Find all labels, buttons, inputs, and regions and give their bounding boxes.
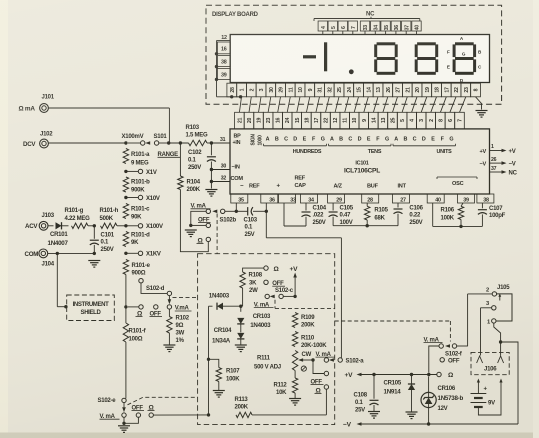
pin 1 +V xyxy=(490,144,516,155)
svg-text:26: 26 xyxy=(491,157,497,163)
S102-f common wire xyxy=(429,346,439,373)
wire J101 to node xyxy=(49,108,170,143)
svg-text:Ω mA: Ω mA xyxy=(19,106,36,113)
svg-text:1000: 1000 xyxy=(258,135,264,146)
svg-text:12: 12 xyxy=(333,118,339,124)
svg-text:SIGN: SIGN xyxy=(251,134,257,146)
svg-text:34: 34 xyxy=(308,198,314,204)
switch S102-f xyxy=(424,337,468,357)
svg-text:4: 4 xyxy=(410,119,416,122)
svg-text:2W: 2W xyxy=(249,288,258,294)
pin 30 wire xyxy=(211,164,230,170)
svg-text:1N914: 1N914 xyxy=(384,388,402,395)
svg-text:17: 17 xyxy=(314,118,320,124)
capacitor C108 xyxy=(354,375,379,414)
op-chip IC101 outline xyxy=(230,129,490,194)
svg-text:R101-f: R101-f xyxy=(129,329,147,335)
instrument shield box xyxy=(67,295,115,321)
display bottom pin boxes xyxy=(227,83,481,97)
svg-text:R101-g: R101-g xyxy=(65,208,84,214)
svg-text:27: 27 xyxy=(396,87,402,93)
svg-text:100K: 100K xyxy=(226,376,240,382)
svg-text:8: 8 xyxy=(474,88,480,91)
svg-text:X1V: X1V xyxy=(146,170,157,176)
ground CR104 xyxy=(235,345,247,352)
svg-text:8: 8 xyxy=(438,119,444,122)
svg-text:DCV: DCV xyxy=(23,141,36,148)
display board dashed outline xyxy=(206,5,502,104)
potentiometer R111 xyxy=(254,351,315,372)
svg-text:A/Z: A/Z xyxy=(334,183,343,189)
svg-text:C: C xyxy=(348,136,352,142)
svg-text:250V: 250V xyxy=(409,220,422,226)
svg-text:C107: C107 xyxy=(489,206,503,212)
svg-text:C102: C102 xyxy=(188,150,202,156)
svg-text:1.5 MEG: 1.5 MEG xyxy=(186,132,209,138)
wiper to OFF omega xyxy=(313,360,324,374)
wire pin40 xyxy=(432,203,434,226)
svg-text:37: 37 xyxy=(491,166,497,172)
wire J102 to S101 xyxy=(49,141,128,144)
svg-text:9K: 9K xyxy=(131,240,139,246)
svg-text:R101-d: R101-d xyxy=(131,232,150,238)
svg-text:40: 40 xyxy=(415,25,421,31)
svg-text:J105: J105 xyxy=(497,285,510,291)
svg-text:38: 38 xyxy=(221,60,227,66)
S102-b VmA to gnd wire xyxy=(189,211,206,227)
capacitor C107 xyxy=(478,203,506,226)
digit minus sign xyxy=(303,55,316,58)
display pin 12 xyxy=(217,35,231,41)
svg-text:R107: R107 xyxy=(226,369,240,375)
resistor R101-h xyxy=(100,208,126,229)
svg-text:24: 24 xyxy=(347,87,353,93)
contact omega S102-f rail xyxy=(437,372,454,379)
svg-text:12V: 12V xyxy=(438,406,448,412)
svg-text:R108: R108 xyxy=(249,272,263,278)
switch S101 xyxy=(122,134,171,145)
svg-text:200K: 200K xyxy=(187,187,201,193)
svg-text:9V: 9V xyxy=(488,401,495,407)
digit 8 (units) xyxy=(453,42,477,75)
svg-text:D: D xyxy=(293,136,297,142)
IC101 bottom pin boxes xyxy=(231,194,494,204)
svg-text:F: F xyxy=(447,49,450,54)
svg-text:900Ω: 900Ω xyxy=(132,270,146,276)
svg-text:9Ω: 9Ω xyxy=(176,323,184,329)
tap X100V xyxy=(124,224,163,231)
wire pin36 to S102-a xyxy=(265,203,342,358)
segment labels A-G xyxy=(447,36,482,83)
svg-text:250V: 250V xyxy=(101,247,114,253)
wires display to IC101 xyxy=(239,97,465,113)
diode CR101 xyxy=(48,222,69,247)
svg-text:C103: C103 xyxy=(244,217,258,223)
svg-text:REF: REF xyxy=(249,183,260,189)
svg-text:−V: −V xyxy=(343,422,352,429)
svg-text:B: B xyxy=(275,136,279,142)
pin 26 -V xyxy=(490,157,516,168)
svg-text:7: 7 xyxy=(351,26,357,29)
resistor R101-g xyxy=(65,208,97,229)
resistor R104 xyxy=(178,141,201,193)
label BUF xyxy=(367,183,379,189)
svg-text:R105: R105 xyxy=(374,207,388,213)
pin 37 NC xyxy=(490,166,518,177)
diode CR105 xyxy=(384,375,416,412)
svg-text:D: D xyxy=(422,136,426,142)
svg-text:9: 9 xyxy=(308,88,314,91)
svg-text:25: 25 xyxy=(391,118,397,124)
svg-text:9: 9 xyxy=(362,119,368,122)
svg-text:R106: R106 xyxy=(441,207,455,213)
contact omega S102-c xyxy=(264,266,280,273)
svg-text:1N4003: 1N4003 xyxy=(250,322,271,329)
svg-text:S101: S101 xyxy=(154,134,168,140)
svg-text:0.22: 0.22 xyxy=(409,213,421,219)
svg-text:1N4007: 1N4007 xyxy=(48,240,69,247)
svg-text:S102-f: S102-f xyxy=(445,351,463,357)
svg-text:C: C xyxy=(284,136,288,142)
svg-text:R101-c: R101-c xyxy=(131,206,150,212)
bracket tens xyxy=(329,144,392,146)
+V arrow at R109 xyxy=(290,266,299,296)
svg-text:24: 24 xyxy=(285,118,291,124)
svg-text:30: 30 xyxy=(221,164,227,170)
svg-text:A: A xyxy=(394,136,398,142)
svg-text:1: 1 xyxy=(240,88,246,91)
switch S102-d xyxy=(139,279,172,305)
resistor R103 xyxy=(169,125,213,146)
resistor R109 xyxy=(292,296,315,328)
svg-text:0.1: 0.1 xyxy=(188,157,197,163)
IC101 top pin boxes xyxy=(235,112,465,129)
svg-text:J106: J106 xyxy=(484,366,497,372)
wire J105-3 to battery+ xyxy=(481,308,492,356)
label S102-c xyxy=(275,288,294,294)
svg-text:CR104: CR104 xyxy=(214,328,232,334)
capacitor C104 xyxy=(284,203,327,226)
wire COM xyxy=(48,252,96,255)
svg-text:HUNDREDS: HUNDREDS xyxy=(293,149,322,155)
switch S102-e xyxy=(98,342,127,412)
svg-text:5: 5 xyxy=(331,26,337,29)
ground C108 xyxy=(368,412,380,419)
svg-text:100pF: 100pF xyxy=(489,213,506,219)
svg-text:14: 14 xyxy=(366,87,372,93)
wire to instrument shield xyxy=(57,253,67,308)
svg-text:B: B xyxy=(339,136,343,142)
svg-text:5: 5 xyxy=(400,119,406,122)
svg-text:100Ω: 100Ω xyxy=(129,337,143,343)
+V rail xyxy=(345,372,438,379)
ground below C102 xyxy=(205,190,217,197)
svg-text:CR105: CR105 xyxy=(384,380,402,386)
label COM xyxy=(231,176,244,182)
svg-text:3K: 3K xyxy=(249,280,257,286)
digit 8 (tens) xyxy=(415,42,439,75)
resistor R101-c xyxy=(123,204,150,221)
svg-text:0.1: 0.1 xyxy=(245,225,254,231)
svg-text:25: 25 xyxy=(337,87,343,93)
S102-e ground wires xyxy=(122,417,138,425)
svg-text:68K: 68K xyxy=(374,215,385,221)
digit 8 (hundreds) xyxy=(374,42,398,75)
resistor R113 xyxy=(235,389,327,418)
svg-text:ACV: ACV xyxy=(25,223,38,230)
svg-text:2: 2 xyxy=(249,88,255,91)
svg-text:4: 4 xyxy=(321,26,327,29)
svg-text:SHIELD: SHIELD xyxy=(81,310,102,316)
tap X10V xyxy=(124,195,160,202)
svg-text:R101-e: R101-e xyxy=(132,263,151,269)
ground below R102 xyxy=(163,345,175,352)
svg-text:+V: +V xyxy=(509,149,516,155)
resistor R107 xyxy=(209,359,241,390)
svg-text:15: 15 xyxy=(295,118,301,124)
svg-text:C104: C104 xyxy=(313,205,327,211)
svg-text:36: 36 xyxy=(269,198,275,204)
svg-text:13: 13 xyxy=(381,118,387,124)
svg-text:1N4003: 1N4003 xyxy=(209,293,230,300)
display pin 38 box xyxy=(217,56,230,67)
segment drive letters A-G x3 xyxy=(266,136,454,142)
svg-text:900K: 900K xyxy=(131,187,145,193)
svg-text:7: 7 xyxy=(458,119,464,122)
ground R107 xyxy=(213,391,225,398)
svg-text:1N5738-b: 1N5738-b xyxy=(438,395,464,402)
capacitor C106 xyxy=(394,203,424,226)
svg-text:6: 6 xyxy=(341,26,347,29)
label UNITS xyxy=(437,149,453,155)
svg-text:10K: 10K xyxy=(276,390,287,396)
svg-text:R104: R104 xyxy=(187,179,201,185)
display pin 16 box xyxy=(217,42,230,54)
contact OFF S102-d xyxy=(150,305,163,318)
label NC xyxy=(366,12,375,18)
contact omega S102-b xyxy=(197,237,211,244)
label 1000 xyxy=(258,135,264,146)
svg-text:C101: C101 xyxy=(101,232,115,238)
svg-text:J101: J101 xyxy=(42,95,55,101)
switch S102-a xyxy=(316,352,365,365)
svg-text:13: 13 xyxy=(376,87,382,93)
svg-text:BUF: BUF xyxy=(367,183,379,189)
resistor R108 xyxy=(240,268,264,306)
svg-text:200K: 200K xyxy=(235,405,249,411)
label A/Z xyxy=(334,183,343,189)
svg-text:28: 28 xyxy=(367,198,373,204)
linkage dash S102-d xyxy=(173,296,198,298)
svg-text:G: G xyxy=(321,136,325,142)
bracket units xyxy=(393,144,456,146)
contact omega S102-a xyxy=(315,385,329,395)
svg-text:33: 33 xyxy=(290,198,296,204)
svg-text:36: 36 xyxy=(394,25,400,31)
linkage dash S102b xyxy=(216,214,218,254)
contact OFF S102-a xyxy=(311,371,329,385)
label REF - + xyxy=(240,183,281,189)
svg-text:0.1: 0.1 xyxy=(101,240,110,246)
display NC pin boxes 4 5 6 7 33 34 35 36 37 40 xyxy=(318,21,421,35)
svg-text:37: 37 xyxy=(404,25,410,31)
contact OFF S102-c xyxy=(264,280,285,287)
svg-text:4.22 MEG: 4.22 MEG xyxy=(65,216,91,222)
svg-text:C108: C108 xyxy=(354,392,368,398)
battery B1 9V xyxy=(471,387,502,415)
svg-text:.022: .022 xyxy=(313,213,325,219)
svg-text:20: 20 xyxy=(415,87,421,93)
wire left branch xyxy=(207,306,210,415)
svg-text:C: C xyxy=(413,136,417,142)
svg-text:28: 28 xyxy=(230,87,236,93)
osc node wire xyxy=(433,225,483,228)
svg-text:22: 22 xyxy=(454,87,460,93)
resistor R101-a xyxy=(123,149,180,167)
svg-text:17: 17 xyxy=(444,87,450,93)
contact OFF S102-e xyxy=(132,405,145,417)
wire J105-1 xyxy=(494,323,501,356)
svg-text:A: A xyxy=(330,136,334,142)
svg-text:14: 14 xyxy=(371,118,377,124)
svg-text:+V: +V xyxy=(290,266,299,273)
svg-text:S102-e: S102-e xyxy=(98,398,117,404)
svg-text:100K: 100K xyxy=(441,215,455,221)
svg-text:−V: −V xyxy=(509,162,516,168)
svg-text:40: 40 xyxy=(435,198,441,204)
svg-text:E: E xyxy=(447,64,450,69)
svg-text:COM: COM xyxy=(25,251,39,258)
svg-text:S102b: S102b xyxy=(220,217,237,223)
contact omega S102-d xyxy=(128,305,143,318)
svg-text:S102-a: S102-a xyxy=(346,359,365,365)
svg-text:35: 35 xyxy=(384,25,390,31)
svg-text:R103: R103 xyxy=(186,125,200,131)
svg-text:15: 15 xyxy=(357,87,363,93)
capacitor C105 xyxy=(329,203,354,226)
dashed enclosure ohms section xyxy=(198,254,335,425)
svg-text:BP: BP xyxy=(234,133,242,139)
resistor R105 xyxy=(365,203,389,226)
svg-text:27: 27 xyxy=(400,198,406,204)
svg-text:500K: 500K xyxy=(100,216,114,222)
resistor R110 xyxy=(292,332,327,350)
svg-text:J103: J103 xyxy=(42,213,55,219)
svg-text:1N34A: 1N34A xyxy=(212,338,231,345)
svg-text:35: 35 xyxy=(238,198,244,204)
wire omega to CR106 node xyxy=(429,374,437,376)
connector J105 xyxy=(486,285,510,325)
svg-text:−V: −V xyxy=(480,161,487,167)
contact OFF S102-f xyxy=(440,358,460,365)
label BP +IN xyxy=(233,133,242,146)
svg-text:3W: 3W xyxy=(176,330,185,336)
wire chain to S102-e xyxy=(125,342,127,398)
svg-text:19: 19 xyxy=(425,87,431,93)
contact omega S102-e xyxy=(148,404,155,417)
svg-text:R110: R110 xyxy=(301,335,315,341)
svg-text:DISPLAY BOARD: DISPLAY BOARD xyxy=(212,12,259,18)
svg-text:J104: J104 xyxy=(42,262,55,268)
svg-text:18: 18 xyxy=(304,118,310,124)
svg-text:0.1: 0.1 xyxy=(355,400,364,406)
svg-text:0.47: 0.47 xyxy=(340,213,352,219)
capacitor C103 xyxy=(236,207,266,238)
tap X1V xyxy=(124,169,157,176)
contact OFF S102-b xyxy=(191,217,211,227)
wire pin35 xyxy=(235,203,238,213)
tap X1KV xyxy=(124,251,161,258)
svg-text:NC: NC xyxy=(366,12,375,18)
zener CR106 xyxy=(421,375,463,425)
svg-text:D: D xyxy=(358,136,362,142)
backplane wire left xyxy=(215,41,243,99)
svg-text:NC: NC xyxy=(509,171,518,177)
svg-text:R111: R111 xyxy=(257,355,271,361)
integrator node wire xyxy=(333,224,398,227)
capacitor C102 xyxy=(188,143,216,189)
resistor R112 xyxy=(274,371,298,399)
svg-text:38: 38 xyxy=(483,198,489,204)
svg-text:29: 29 xyxy=(336,198,342,204)
label ICL7106CPL xyxy=(344,167,380,174)
svg-text:R112: R112 xyxy=(274,383,288,389)
svg-text:INSTRUMENT: INSTRUMENT xyxy=(73,302,110,308)
svg-text:100V: 100V xyxy=(340,220,353,226)
svg-text:11: 11 xyxy=(288,87,294,92)
LCD display body xyxy=(230,35,489,83)
svg-text:29: 29 xyxy=(279,87,285,93)
ground S102-e xyxy=(118,426,130,433)
svg-text:2: 2 xyxy=(486,287,489,293)
svg-text:6: 6 xyxy=(448,119,454,122)
svg-text:OSC: OSC xyxy=(452,181,464,187)
svg-text:3: 3 xyxy=(419,119,425,122)
diode CR102 1N4003 xyxy=(209,293,243,310)
chain wire to S102d row xyxy=(124,275,127,309)
label -IN xyxy=(232,164,240,170)
pin 31 wire xyxy=(211,137,230,143)
svg-text:22: 22 xyxy=(324,118,330,124)
jack J101 xyxy=(19,95,55,113)
svg-text:20K-100K: 20K-100K xyxy=(301,343,327,349)
svg-text:10: 10 xyxy=(352,118,358,124)
svg-text:39: 39 xyxy=(221,72,227,78)
svg-text:X1KV: X1KV xyxy=(146,252,161,258)
label REF CAP xyxy=(295,176,307,189)
svg-text:CW: CW xyxy=(302,352,312,358)
svg-text:S102-c: S102-c xyxy=(275,288,294,294)
jack frame J105 xyxy=(496,293,512,321)
svg-text:CAP: CAP xyxy=(295,183,307,189)
linkage dash S102-c xyxy=(275,300,335,309)
switch S102-b xyxy=(191,204,237,224)
resistor R101-d xyxy=(123,232,150,247)
svg-text:+V: +V xyxy=(480,149,487,155)
plug pins to battery xyxy=(477,379,503,390)
svg-text:2: 2 xyxy=(429,119,435,122)
display pin 39 box xyxy=(217,68,230,79)
linkage dash S102-e xyxy=(128,397,198,405)
jack J103 xyxy=(25,213,55,230)
svg-text:X100mV: X100mV xyxy=(122,134,144,140)
ground S102-b xyxy=(185,230,197,237)
svg-text:G: G xyxy=(385,136,389,142)
pin 32 wire xyxy=(211,175,230,181)
ground R112 xyxy=(289,399,301,406)
svg-text:R101-a: R101-a xyxy=(131,152,150,158)
svg-text:+IN: +IN xyxy=(233,140,241,146)
